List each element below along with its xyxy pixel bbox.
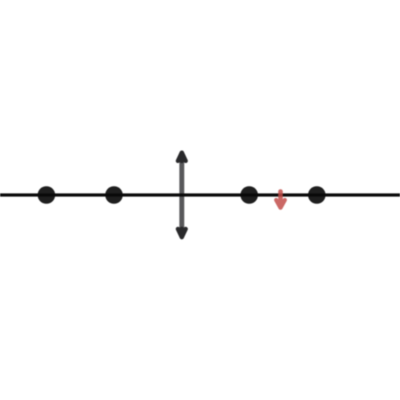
dot P1: [38, 186, 56, 204]
dot P4: [308, 186, 326, 204]
dot P3: [240, 186, 258, 204]
red marker arrow: [276, 192, 285, 208]
vertical double arrow shaft: [179, 154, 184, 235]
vertical double arrow top head: [178, 153, 186, 161]
number line: [0, 193, 400, 196]
dot P2: [105, 186, 123, 204]
vertical double arrow bottom head: [178, 229, 186, 237]
